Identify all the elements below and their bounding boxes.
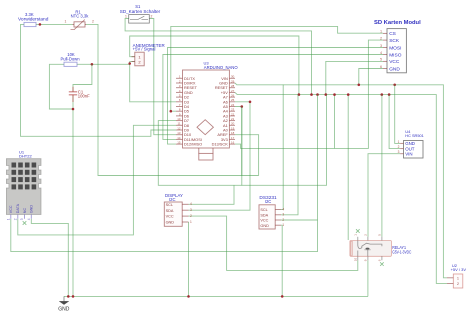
connector anemometer (132, 43, 165, 66)
resistor 3.3K Vorwiderstand (18, 12, 49, 27)
node +5V junction switch line (310, 93, 313, 96)
thermistor R1 NTC 3,3k (65, 10, 95, 30)
sensor U1 DHT22 (6, 149, 41, 224)
svg-text:3: 3 (282, 213, 284, 217)
wire: U4 GND up to GND bus (395, 85, 401, 144)
svg-text:4: 4 (282, 207, 284, 211)
IC U3 ARDUINO_NANO body (183, 60, 239, 160)
wire: SCK line SD module to D13 (235, 40, 383, 148)
wire: DS3231 SDA up (281, 95, 298, 215)
node +5V junction DS3231 VCC riser (316, 93, 319, 96)
relay RELAY1 G5V-1-3VDC (350, 229, 412, 266)
svg-text:1: 1 (6, 218, 10, 220)
wire: 10K left leg to cap bottom (49, 64, 73, 109)
capacitor C1 100nF (69, 87, 90, 102)
svg-text:GND: GND (389, 66, 400, 72)
wire: anemometer pin1 up to +5V run (130, 36, 299, 95)
svg-text:18: 18 (231, 131, 235, 135)
node 10K-right junction (91, 63, 94, 66)
svg-text:17: 17 (231, 136, 235, 140)
svg-text:GND: GND (30, 205, 34, 214)
node cap bottom junction (72, 108, 75, 111)
svg-text:2: 2 (457, 282, 459, 286)
wire: feed line D7 to +5V riser (158, 95, 326, 186)
svg-text:NC: NC (23, 208, 27, 214)
svg-text:SCL: SCL (260, 208, 267, 212)
wire: DS3231 GND down to GND bus (281, 225, 282, 296)
wire: MOSI line SD module to D12 (168, 48, 384, 145)
svg-text:2: 2 (190, 214, 192, 218)
svg-text:12: 12 (177, 126, 181, 130)
wire: DS3231 VCC stub line (281, 219, 318, 221)
wire: +5V drop to relay frame (347, 95, 349, 240)
svg-text:2: 2 (380, 36, 382, 40)
svg-text:24: 24 (231, 103, 235, 107)
node divider-top junction (39, 23, 42, 26)
svg-text:6: 6 (380, 65, 382, 69)
node GND bus dot cap (72, 295, 75, 298)
svg-text:CS: CS (389, 31, 396, 37)
node +5V junction relay frame drop (347, 93, 350, 96)
svg-text:+5V / Signal: +5V / Signal (133, 47, 156, 52)
svg-text:I2C: I2C (265, 199, 272, 204)
svg-text:2: 2 (13, 218, 17, 220)
svg-text:3: 3 (190, 208, 192, 212)
node GND bus dot display (187, 295, 190, 298)
svg-text:4: 4 (190, 202, 192, 206)
wire: switch left pin to +5V bus (125, 19, 311, 95)
svg-text:3: 3 (20, 218, 24, 220)
svg-text:4: 4 (27, 218, 31, 220)
wire: GND bottom bus (64, 295, 368, 297)
svg-text:1: 1 (125, 14, 127, 18)
wire: U4 VIN to relay pin2 (368, 154, 400, 237)
svg-text:D13/SCK: D13/SCK (212, 142, 229, 147)
wire: A5 column down to feed line (241, 107, 243, 186)
svg-text:VIN: VIN (405, 151, 412, 156)
wire: divider top to thermistor (36, 23, 73, 25)
wire: DHT DATA to D8 (18, 125, 176, 235)
svg-text:10: 10 (353, 258, 357, 262)
svg-text:10: 10 (177, 117, 181, 121)
svg-text:4: 4 (380, 51, 382, 55)
wire: +5V drop to SCK crossing (334, 95, 336, 149)
svg-text:SDA: SDA (260, 213, 268, 217)
svg-text:1: 1 (398, 140, 400, 144)
svg-text:1: 1 (282, 223, 284, 227)
wire: SD GND down to GND bus (359, 69, 383, 85)
svg-text:21: 21 (231, 117, 235, 121)
wire: CS line SD module to D5 (171, 26, 383, 111)
wire: 3.3K left leg to D9 net (21, 24, 177, 136)
wire: 10K junction down to cap top (73, 64, 92, 92)
svg-text:11: 11 (177, 122, 180, 126)
svg-text:VCC: VCC (260, 219, 268, 223)
wire: display VCC down to relay line (189, 216, 358, 270)
svg-text:VCC: VCC (166, 215, 174, 219)
wire: DHT VCC along VCC bus to DS3231 (11, 95, 318, 252)
wire: U4 OUT up to +5V bus (389, 95, 400, 149)
node GND bus dot DS3231 (281, 295, 284, 298)
svg-text:GND: GND (58, 307, 70, 313)
wire: SD VCC down to +5V bus (326, 61, 383, 94)
node A5 junction (241, 105, 244, 108)
svg-text:3: 3 (380, 44, 382, 48)
connector U2 +5V 3V (447, 263, 466, 288)
wire: relay pin9 down to GND bus (367, 260, 369, 296)
wire: anemometer pin2 junction to D3 (130, 62, 176, 102)
wire: cap bottom down to GND bus (72, 95, 74, 296)
svg-text:27: 27 (231, 89, 235, 93)
module SD Karten Modul (374, 20, 421, 73)
svg-text:30: 30 (231, 75, 235, 79)
svg-text:DHT22: DHT22 (19, 154, 32, 159)
resistor 10K Pull-Down (60, 52, 80, 66)
wire: MISO line SD module to D11 (163, 55, 383, 140)
svg-text:16: 16 (231, 141, 235, 145)
svg-text:14: 14 (177, 136, 181, 140)
svg-text:MISO: MISO (389, 52, 402, 58)
svg-text:Vorwiderstand: Vorwiderstand (18, 16, 49, 21)
svg-text:20: 20 (231, 122, 235, 126)
node +5V junction U4 OUT (388, 93, 391, 96)
svg-text:GND: GND (166, 221, 175, 225)
svg-text:1: 1 (380, 30, 382, 34)
svg-text:3: 3 (398, 150, 400, 154)
svg-text:I2C: I2C (169, 197, 176, 202)
svg-text:SD Karten Modul: SD Karten Modul (374, 20, 421, 26)
wire: display SCL up to feed line (189, 185, 235, 204)
IC U3 ARDUINO_NANO right pins (212, 75, 235, 147)
sensor U4 HC SR501 (398, 129, 425, 158)
svg-text:NTC 3,3k: NTC 3,3k (71, 14, 90, 19)
svg-text:SCL: SCL (166, 203, 173, 207)
svg-text:15: 15 (177, 141, 181, 145)
node GND bus junction U4 (393, 84, 396, 87)
svg-text:DATA: DATA (16, 203, 20, 213)
svg-text:19: 19 (231, 126, 235, 130)
node +5V junction SD VCC (325, 93, 328, 96)
svg-text:2: 2 (92, 19, 94, 23)
svg-text:Pull-Down: Pull-Down (60, 56, 80, 61)
ground (58, 296, 70, 312)
svg-text:25: 25 (231, 98, 235, 102)
svg-text:1: 1 (457, 276, 459, 280)
node GND bus dot DHT (67, 295, 70, 298)
svg-text:26: 26 (231, 94, 235, 98)
wire: GND bus (235, 83, 447, 278)
module DISPLAY I2C (164, 193, 192, 227)
module DS3231 I2C (259, 195, 284, 229)
wire: +5V bus (235, 92, 447, 283)
svg-text:2: 2 (398, 145, 400, 149)
svg-text:ARDUINO_NANO: ARDUINO_NANO (204, 65, 238, 70)
wire: switch right pin to D10 (149, 19, 176, 135)
wire: 10K right to anemometer junction (77, 63, 130, 65)
svg-text:G5V-1-3VDC: G5V-1-3VDC (392, 249, 411, 254)
svg-text:1: 1 (190, 220, 192, 224)
wire: 3V3 to thermistor line (235, 135, 259, 176)
svg-text:23: 23 (231, 108, 235, 112)
wire: thermistor right down to analog feed (86, 24, 259, 175)
svg-text:100nF: 100nF (78, 94, 90, 99)
wire: display GND down to GND bus (188, 222, 190, 296)
svg-text:SDA: SDA (166, 209, 174, 213)
svg-text:5: 5 (380, 58, 382, 62)
node anemometer junction (128, 62, 131, 65)
svg-text:2: 2 (282, 218, 284, 222)
svg-text:22: 22 (231, 112, 235, 116)
svg-text:13: 13 (177, 131, 181, 135)
svg-text:1: 1 (65, 19, 67, 23)
wire: DS3231 SCL up (281, 85, 283, 210)
node +5V junction drop (333, 93, 336, 96)
node A6 junction (249, 101, 252, 104)
svg-text:VCC: VCC (9, 205, 13, 213)
svg-text:HC SR501: HC SR501 (405, 133, 424, 138)
svg-text:29: 29 (231, 79, 235, 83)
wire: DHT GND down to GND bus (31, 219, 68, 297)
wire: A5 riser (235, 107, 242, 176)
svg-text:VCC: VCC (389, 59, 400, 65)
svg-text:2: 2 (151, 14, 153, 18)
node +5V junction relay common (381, 93, 384, 96)
wire: A6 to display SDA (189, 102, 251, 210)
svg-text:28: 28 (231, 84, 235, 88)
svg-text:SCK: SCK (389, 38, 400, 44)
node +5V junction anemometer line (298, 93, 301, 96)
svg-text:GND: GND (260, 224, 269, 228)
svg-text:MOSI: MOSI (389, 45, 401, 51)
switch S1 SD Karten Schalter (120, 4, 161, 23)
svg-text:D12/MISO: D12/MISO (184, 142, 202, 147)
IC U3 ARDUINO_NANO left pins (176, 75, 202, 147)
svg-text:+5V / 3V: +5V / 3V (451, 267, 467, 272)
node D5 junction (170, 110, 173, 113)
wire: +5V to relay pin5 (381, 95, 383, 237)
node GND bus junction SD (358, 84, 361, 87)
